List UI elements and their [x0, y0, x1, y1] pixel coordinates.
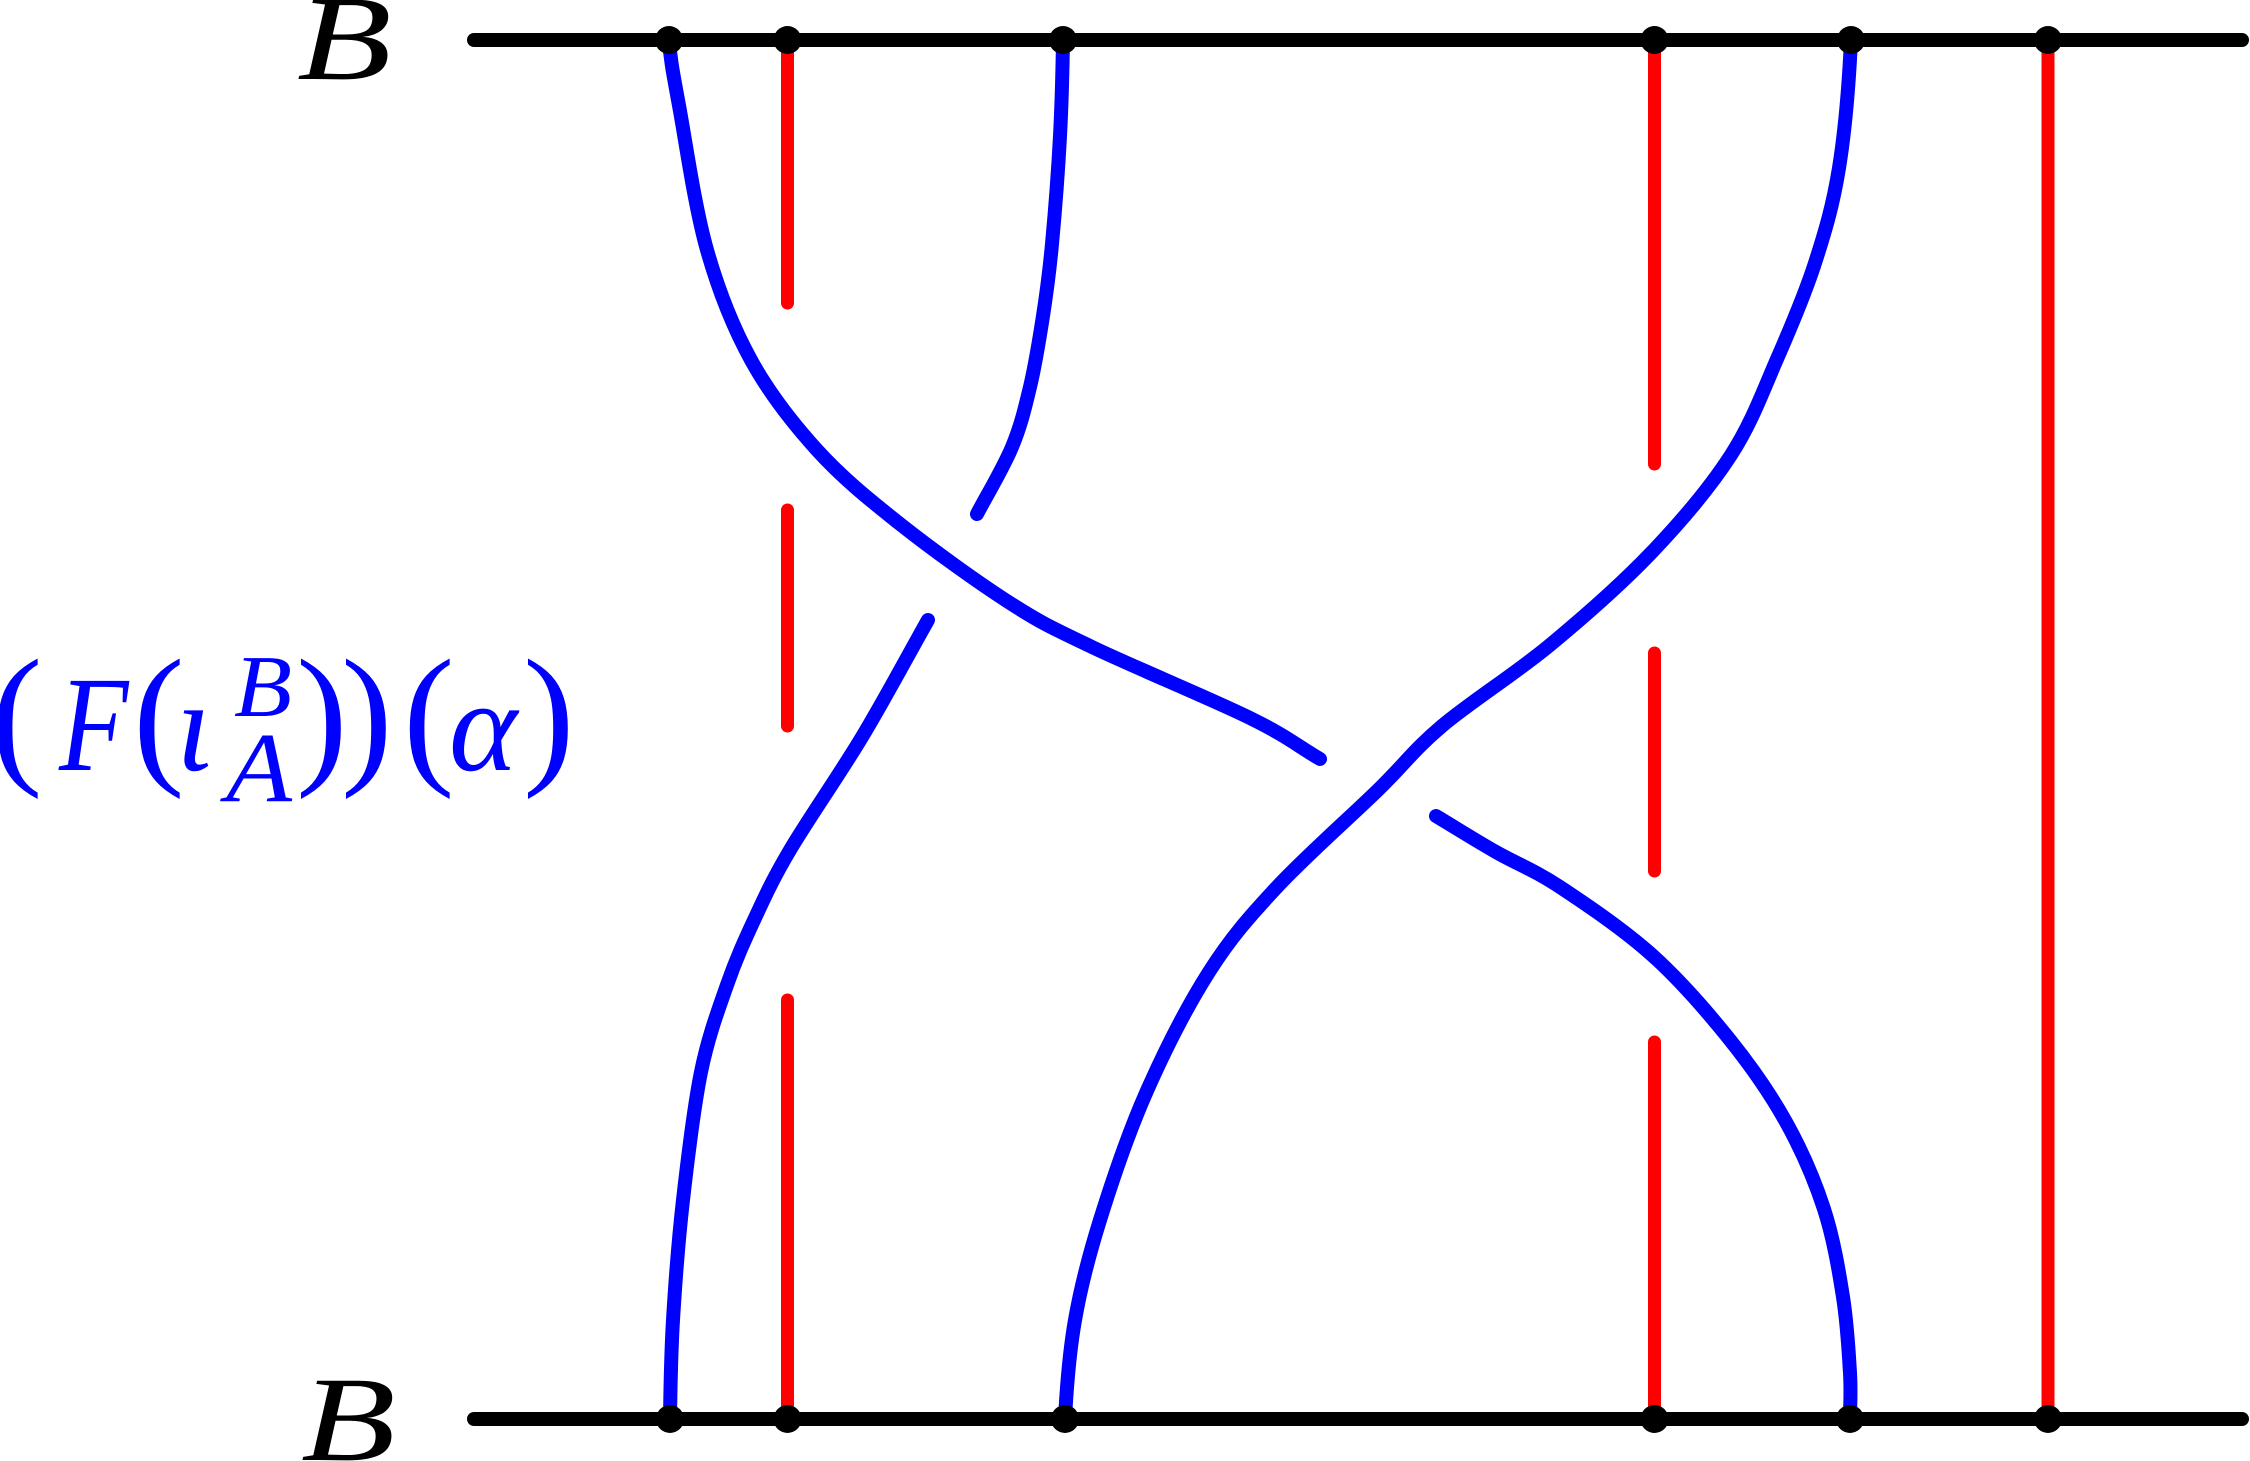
red string R1 bottom segment [781, 1000, 794, 1415]
svg-text:α: α [449, 655, 520, 799]
blue strand S1 upper piece (passes under S3) [669, 40, 1320, 759]
svg-text:B: B [297, 0, 392, 106]
svg-text:(: ( [403, 628, 455, 800]
node bottom 6 (R3 endpoint) [2034, 1405, 2062, 1433]
top boundary line B [474, 33, 2242, 47]
bottom boundary line B [474, 1412, 2242, 1426]
blue strand S2 upper piece (passes under S1) [977, 40, 1063, 514]
svg-text:ι: ι [176, 655, 212, 799]
node top 5 (S3 endpoint) [1837, 26, 1865, 54]
node bottom 5 (S1 endpoint) [1836, 1405, 1864, 1433]
red string R2 middle segment [1648, 653, 1661, 871]
red string R1 top segment [781, 44, 794, 303]
node bottom 3 (S3 endpoint) [1051, 1405, 1079, 1433]
svg-text:(: ( [0, 628, 43, 800]
red string R2 bottom segment [1648, 1042, 1661, 1415]
label B (top boundary) [297, 0, 392, 106]
blue strand S2 lower piece [670, 620, 928, 1419]
node top 6 (R3 endpoint) [2034, 26, 2062, 54]
red string R2 top segment [1648, 44, 1661, 464]
blue strand S1 lower piece [1436, 816, 1851, 1419]
red string R1 middle segment [781, 510, 794, 726]
node top 4 (R2 endpoint) [1641, 26, 1669, 54]
node top 1 (S1 endpoint) [655, 26, 683, 54]
label B (bottom boundary) [301, 1353, 396, 1461]
node bottom 2 (R1 endpoint) [774, 1405, 802, 1433]
svg-text:): ) [523, 628, 575, 800]
blue strand S3 (over-strand) [1065, 40, 1851, 1419]
node bottom 4 (R2 endpoint) [1641, 1405, 1669, 1433]
node top 2 (R1 endpoint) [774, 26, 802, 54]
svg-text:F: F [58, 650, 130, 801]
blue morphism label (F(iota_A^B))(alpha) [0, 628, 575, 823]
node bottom 1 (S2 endpoint) [656, 1405, 684, 1433]
svg-text:): ) [341, 628, 393, 800]
svg-text:B: B [301, 1353, 396, 1461]
node top 3 (S2 endpoint) [1049, 26, 1077, 54]
svg-text:): ) [296, 628, 348, 800]
red string R3 (unbroken) [2042, 44, 2055, 1415]
svg-text:A: A [220, 712, 293, 823]
